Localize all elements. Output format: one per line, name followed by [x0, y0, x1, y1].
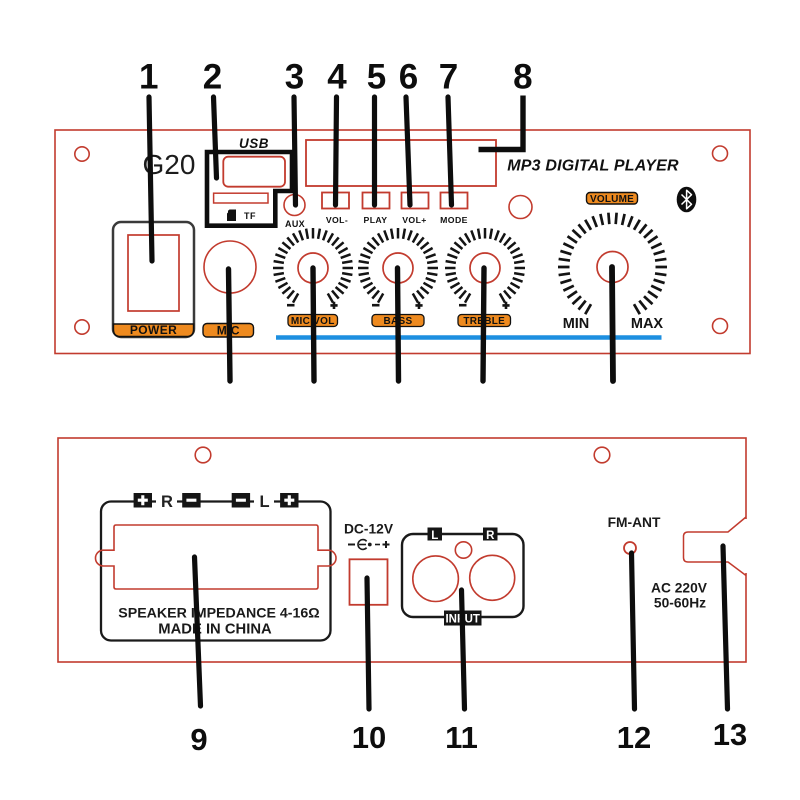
screw hole bottom-left [75, 320, 89, 334]
svg-text:SPEAKER IMPEDANCE 4-16Ω: SPEAKER IMPEDANCE 4-16Ω [118, 606, 319, 622]
rear screw hole left [195, 447, 211, 463]
FM antenna hole [624, 542, 636, 554]
svg-text:PLAY: PLAY [364, 215, 388, 225]
knob MIC VOL: plus sign [330, 302, 337, 309]
svg-text:L: L [431, 530, 438, 542]
mic jack circle [204, 241, 256, 293]
speaker cutout red rect with side tabs [95, 525, 336, 589]
speaker terminal block outline [101, 502, 331, 641]
svg-text:7: 7 [439, 58, 458, 97]
knob TREBLE: tick marks [445, 228, 525, 303]
blue accent stripe [276, 335, 662, 340]
svg-text:VOL-: VOL- [326, 215, 348, 225]
knob TREBLE: plus sign [502, 302, 509, 309]
svg-text:13: 13 [713, 717, 747, 752]
knob BASS: red cap circle [383, 253, 413, 283]
TF card slot [214, 193, 268, 203]
screw hole top-left [75, 147, 89, 161]
svg-text:DC-12V: DC-12V [344, 522, 394, 537]
callout line 9 [195, 557, 201, 706]
display window [306, 140, 496, 186]
knob BASS: tick marks [358, 228, 438, 303]
callout line 8 elbow [479, 96, 524, 150]
svg-text:6: 6 [399, 58, 418, 97]
VOLUME label plate [587, 193, 638, 205]
white gap behind L [254, 495, 274, 507]
speaker terminal - [232, 493, 250, 508]
svg-text:50-60Hz: 50-60Hz [654, 596, 706, 611]
svg-text:MIN: MIN [563, 316, 590, 332]
polarity lead right [375, 544, 380, 546]
callout line 6 [406, 97, 410, 205]
button MODE [441, 193, 468, 209]
svg-text:USB: USB [239, 136, 269, 151]
svg-text:11: 11 [445, 720, 478, 755]
knob TREBLE: red cap circle [470, 253, 500, 283]
callout line 13 [723, 546, 728, 709]
callout line 10 [367, 578, 369, 709]
AC inlet funnel [684, 517, 747, 576]
svg-text:5: 5 [367, 58, 386, 97]
button PLAY [363, 193, 390, 209]
TF card icon [227, 210, 236, 222]
screw hole bottom-right [713, 319, 728, 334]
input block outline [402, 534, 524, 617]
svg-text:MODE: MODE [440, 215, 468, 225]
knob MIC VOL: orange label plate [288, 315, 338, 327]
hole mid panel [509, 196, 532, 219]
callout line 2 [214, 97, 217, 178]
svg-text:1: 1 [139, 58, 158, 97]
callout line 4 [336, 97, 337, 205]
white gap behind R [156, 495, 177, 507]
volume knob cap [597, 252, 628, 283]
svg-text:VOLUME: VOLUME [590, 194, 634, 205]
polarity plus [383, 541, 390, 548]
svg-text:MADE IN CHINA: MADE IN CHINA [158, 622, 272, 638]
speaker terminal + [134, 493, 152, 508]
INPUT tag [444, 611, 482, 626]
front panel outline [55, 130, 750, 354]
rear panel outline [58, 438, 746, 662]
callout line mic [229, 269, 231, 381]
knob BASS: minus sign [372, 304, 380, 307]
callout line 1 [149, 97, 152, 261]
knob MIC VOL: minus sign [287, 304, 295, 307]
callout line 11 [462, 590, 465, 709]
knob BASS: orange label plate [372, 315, 424, 327]
knob MIC VOL: red cap circle [298, 253, 328, 283]
AUX jack circle [284, 195, 305, 216]
svg-text:MP3 DIGITAL PLAYER: MP3 DIGITAL PLAYER [507, 158, 679, 175]
power switch orange band [114, 324, 194, 337]
svg-text:AUX: AUX [285, 219, 305, 229]
callout line 3 [294, 97, 296, 205]
input center hole [455, 542, 471, 558]
knob TREBLE: minus sign [459, 304, 467, 307]
speaker terminal - [182, 493, 200, 508]
svg-text:9: 9 [190, 722, 207, 757]
svg-text:4: 4 [327, 58, 347, 97]
polarity center pin [368, 543, 372, 547]
svg-text:VOL+: VOL+ [402, 215, 427, 225]
svg-text:AC 220V: AC 220V [651, 581, 708, 596]
callout line bass [398, 268, 399, 381]
callout line treble [483, 268, 484, 381]
callout line 5 [372, 97, 377, 205]
svg-text:12: 12 [617, 720, 651, 755]
svg-text:3: 3 [285, 58, 304, 97]
knob TREBLE: orange label plate [458, 315, 511, 327]
callout line 7 [448, 97, 452, 205]
callout line mic vol [313, 268, 314, 381]
svg-text:2: 2 [203, 58, 222, 97]
svg-text:8: 8 [513, 58, 532, 97]
RCA jack left [413, 556, 459, 602]
svg-text:POWER: POWER [130, 323, 177, 337]
svg-text:FM-ANT: FM-ANT [608, 515, 661, 530]
screw hole top-right [713, 146, 728, 161]
polarity barrel ring [358, 540, 367, 550]
button VOL+ [402, 193, 429, 209]
rear screw hole right [594, 447, 610, 463]
MIC label plate [203, 324, 254, 338]
speaker terminal + [280, 493, 298, 508]
svg-text:R: R [486, 530, 495, 542]
RCA jack right [470, 555, 515, 600]
input L square [428, 528, 443, 541]
svg-text:MAX: MAX [631, 316, 664, 332]
USB port [223, 157, 285, 187]
input R square [483, 528, 498, 541]
button VOL- [322, 193, 349, 209]
callout line 12 [632, 553, 635, 709]
svg-text:TF: TF [244, 211, 256, 221]
polarity lead line [359, 544, 366, 546]
gap in right border for AC inlet [743, 519, 749, 573]
bluetooth logo [677, 187, 697, 213]
USB/TF black enclosure outline [207, 152, 292, 226]
knob MIC VOL: tick marks [273, 228, 353, 303]
polarity minus [348, 544, 355, 546]
svg-text:10: 10 [352, 720, 386, 755]
svg-text:L: L [259, 493, 269, 511]
volume knob tick marks [558, 213, 667, 315]
svg-text:R: R [161, 493, 173, 511]
power switch rocker window [128, 235, 179, 311]
DC jack [350, 559, 388, 605]
callout line volume [612, 267, 613, 381]
power switch body [113, 222, 194, 337]
knob BASS: plus sign [415, 302, 422, 309]
